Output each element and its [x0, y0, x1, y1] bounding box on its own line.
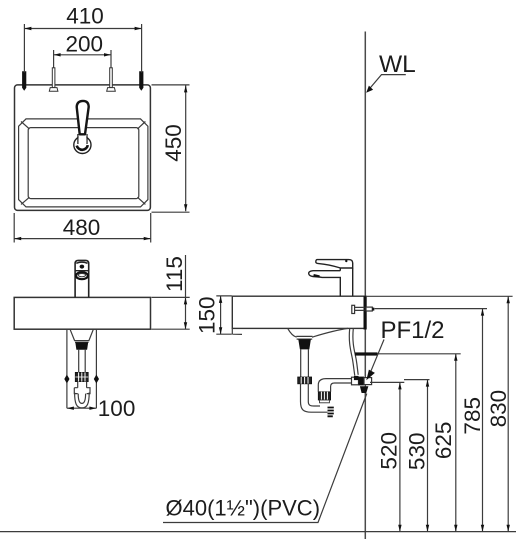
dimension 520 — [376, 382, 401, 531]
svg-text:480: 480 — [63, 215, 101, 240]
mounting bolt (side) — [352, 305, 375, 313]
body left above spout — [339, 268, 341, 271]
dimension 785 — [460, 309, 485, 532]
extension lines right side — [366, 295, 513, 297]
bracket bar (black) — [355, 352, 378, 355]
dimension 450 — [152, 85, 190, 212]
svg-text:410: 410 — [66, 3, 104, 28]
faucet front body — [75, 260, 89, 297]
wall hanger bolt right (black) — [139, 71, 143, 91]
bowl underside (side) — [288, 328, 348, 337]
drain flange (side) — [296, 336, 312, 339]
svg-text:200: 200 — [66, 32, 104, 57]
faucet front cap line — [75, 270, 89, 272]
PF1/2 label — [366, 317, 444, 380]
drain pipe label Ø40 — [163, 394, 367, 523]
trap inlet (front) — [78, 382, 87, 388]
svg-text:Ø40(1½")(PVC): Ø40(1½")(PVC) — [166, 496, 321, 521]
tailpipe (side) — [301, 349, 309, 377]
dimension 410 — [24, 3, 141, 72]
waste arm (side) — [318, 379, 351, 392]
svg-text:450: 450 — [161, 124, 186, 162]
drain flange (front) — [74, 341, 89, 343]
svg-text:100: 100 — [98, 396, 136, 421]
basin bevel inner edge — [28, 128, 139, 199]
dimension 150 — [194, 296, 231, 334]
dimension 480 — [14, 213, 151, 243]
fixing bolt left (outline) — [49, 68, 58, 91]
faucet front lever dot — [80, 265, 85, 269]
faucet front cap arc — [76, 262, 87, 263]
wall line — [364, 32, 366, 539]
waste wall fitting — [352, 377, 372, 393]
sink front-view body — [14, 297, 150, 329]
svg-text:115: 115 — [162, 256, 187, 292]
faucet neck (top view) — [78, 134, 87, 144]
fixing bolt right (outline) — [107, 68, 116, 91]
dimension 625 — [431, 354, 458, 532]
WL label — [366, 51, 416, 93]
supply hose (side) — [349, 328, 358, 375]
trap elbow to horizontal (side) — [301, 402, 328, 413]
dimension 830 — [486, 296, 511, 532]
U-bend (front) — [75, 393, 90, 408]
svg-text:520: 520 — [376, 432, 401, 470]
wall hanger bolt left (black) — [22, 71, 26, 91]
sink side-view body — [232, 296, 365, 328]
trap downpipe (side) — [301, 384, 309, 402]
faucet base ring outer — [74, 136, 91, 153]
front apron lower edge — [232, 328, 242, 334]
sink back edge thick (at wall) — [364, 296, 367, 329]
svg-text:150: 150 — [194, 296, 219, 334]
svg-text:PF1/2: PF1/2 — [381, 317, 445, 344]
faucet lever (top view) — [77, 101, 89, 134]
spout — [309, 271, 341, 297]
svg-text:WL: WL — [379, 51, 416, 78]
drain nut black (side) — [298, 339, 311, 349]
sink top-view outer rim — [15, 85, 151, 210]
tailpipe (front) — [79, 350, 86, 373]
supply hose nut — [354, 376, 359, 380]
dimension 100 — [64, 330, 135, 421]
dimension 200 — [54, 32, 111, 68]
svg-text:530: 530 — [405, 433, 430, 471]
faucet base ring inner thick arc — [77, 145, 88, 150]
spout outlet dark — [314, 275, 320, 276]
floor line — [0, 531, 516, 533]
coupling nut 2 (side) — [318, 392, 330, 403]
lever pivot dot — [345, 260, 347, 262]
coupling nut 1 (side) — [298, 377, 312, 384]
basin bevel outer edge — [19, 119, 148, 207]
faucet front spout ellipse — [76, 272, 88, 279]
cleanout cap ribs — [328, 408, 334, 417]
svg-text:785: 785 — [460, 397, 485, 435]
faucet side view — [309, 260, 353, 297]
lever — [316, 260, 353, 268]
dimension 530 — [405, 380, 430, 532]
dimension 115 — [151, 255, 189, 329]
coupling nut (front) — [75, 372, 88, 381]
basin corner facet lines — [21, 122, 145, 205]
body right edge — [352, 268, 354, 296]
svg-text:830: 830 — [486, 390, 511, 428]
drain nut black (front) — [75, 342, 88, 350]
bowl underside slants (front) — [70, 329, 93, 340]
svg-text:625: 625 — [431, 422, 456, 460]
